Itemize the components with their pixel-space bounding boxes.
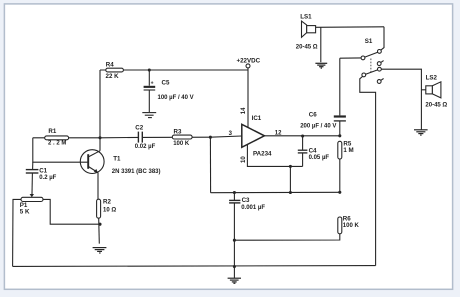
svg-text:200 µF / 40 V: 200 µF / 40 V	[300, 124, 336, 130]
svg-text:LS1: LS1	[300, 13, 312, 20]
svg-text:R1: R1	[48, 128, 56, 135]
wire: junction down through bottom rail to ground	[233, 240, 235, 278]
wire: pin 14 supply drop	[247, 68, 249, 128]
svg-text:10: 10	[241, 156, 247, 163]
resistor R6	[338, 216, 360, 234]
transistor T1	[80, 150, 160, 175]
wire: lower net y=192	[211, 191, 340, 193]
node: emitter/P1 junction	[98, 223, 101, 226]
node: supply/C5 junction	[148, 68, 151, 71]
wire: switch to LS2	[381, 69, 426, 129]
node: pin3 junction	[209, 131, 233, 139]
speaker LS2	[425, 74, 447, 108]
node: R5/R6 junction	[338, 191, 341, 194]
wire: op-amp output	[264, 135, 339, 137]
wire: loop junction down to lower net	[289, 166, 291, 192]
wire: LS1 to ground	[320, 27, 322, 62]
resistor R2	[97, 173, 117, 244]
svg-text:T1: T1	[113, 155, 121, 162]
ground (LS1)	[315, 63, 327, 68]
wire: R6 bottom to C3 bottom	[234, 234, 339, 240]
node: pin10 loop junction	[289, 165, 292, 168]
svg-text:C6: C6	[309, 112, 317, 119]
wire: collector vertical from R4 node	[99, 70, 101, 151]
wire: right return rail	[360, 76, 376, 265]
wire: P1 left arm to bottom rail	[13, 199, 21, 266]
svg-text:+22VDC: +22VDC	[237, 57, 261, 64]
svg-text:2 . 2 M: 2 . 2 M	[48, 140, 66, 146]
svg-text:C1: C1	[39, 167, 47, 174]
svg-text:R3: R3	[174, 128, 182, 135]
svg-text:20-45 Ω: 20-45 Ω	[296, 44, 318, 50]
wire: bottom rail	[13, 265, 376, 268]
svg-text:1 M: 1 M	[343, 147, 353, 154]
svg-text:100 µF / 40 V: 100 µF / 40 V	[158, 95, 194, 101]
svg-text:+: +	[151, 81, 154, 87]
svg-text:C3: C3	[242, 197, 250, 204]
wire: pin3 node down to lower net	[209, 137, 211, 193]
resistor R1	[33, 128, 100, 147]
resistor R4	[106, 62, 124, 80]
speaker LS1	[296, 13, 384, 50]
op-amp IC1	[241, 107, 282, 163]
svg-text:R6: R6	[343, 216, 351, 223]
ground (C5)	[142, 113, 156, 118]
node: output/C4 junction	[301, 134, 304, 137]
node: collector junction	[98, 136, 101, 139]
node: loop/lower net junction	[289, 191, 292, 194]
svg-text:10 Ω: 10 Ω	[103, 208, 116, 214]
svg-text:PA234: PA234	[253, 150, 272, 157]
potentiometer P1	[20, 194, 43, 215]
capacitor C2	[135, 124, 156, 150]
svg-text:C4: C4	[309, 147, 317, 154]
capacitor C4	[298, 136, 330, 166]
svg-text:2N 3391 (BC 383): 2N 3391 (BC 383)	[112, 169, 161, 175]
capacitor C3	[229, 193, 265, 241]
wire: signal line to op-amp	[100, 136, 242, 138]
wire: pin 10 loop	[247, 145, 302, 167]
resistor R5	[338, 141, 354, 193]
node: C3/R6 bottom junction	[233, 239, 236, 242]
svg-text:C5: C5	[162, 80, 170, 87]
wire: P1 right arm to emitter node	[43, 199, 100, 224]
wire: +22V supply rail	[100, 69, 248, 71]
svg-text:R4: R4	[106, 62, 114, 69]
svg-text:S1: S1	[365, 38, 373, 45]
svg-text:14: 14	[241, 107, 247, 114]
svg-text:C2: C2	[135, 124, 143, 131]
switch S1	[340, 27, 384, 84]
node: bottom rail junction	[233, 265, 236, 268]
ground (main, below bottom rail)	[228, 278, 241, 283]
svg-text:R2: R2	[103, 199, 111, 206]
wire: base line from left rail	[33, 138, 88, 162]
node: C3 top junction	[233, 191, 236, 194]
svg-text:5 K: 5 K	[20, 208, 30, 215]
capacitor C6	[300, 58, 346, 136]
svg-text:LS2: LS2	[426, 74, 438, 81]
svg-text:100 K: 100 K	[173, 141, 190, 147]
svg-text:0.001 µF: 0.001 µF	[241, 205, 265, 211]
ground (R2/emitter)	[93, 248, 107, 253]
node: output/C6/R5 junction	[338, 134, 341, 137]
terminal +22VDC	[237, 57, 261, 68]
svg-text:20-45 Ω: 20-45 Ω	[425, 102, 447, 108]
capacitor C5	[144, 70, 194, 112]
svg-text:0.2 µF: 0.2 µF	[39, 175, 56, 181]
svg-text:100 K: 100 K	[343, 223, 360, 229]
ground (LS2)	[414, 130, 428, 135]
svg-text:22 K: 22 K	[106, 73, 120, 80]
svg-text:0.02 µF: 0.02 µF	[135, 144, 156, 150]
resistor R3	[172, 128, 192, 146]
capacitor C1	[26, 162, 57, 194]
svg-text:IC1: IC1	[252, 115, 262, 122]
svg-text:0.05 µF: 0.05 µF	[309, 155, 330, 161]
